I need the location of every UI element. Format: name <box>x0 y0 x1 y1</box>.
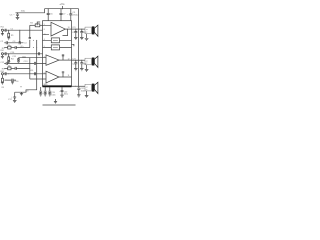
resistor R3 <box>4 46 15 49</box>
capacitor C9 <box>69 8 72 21</box>
wire supply input <box>16 9 45 13</box>
wire stby row <box>30 78 43 81</box>
svg-text:47k: 47k <box>30 70 33 72</box>
ground <box>74 69 78 71</box>
svg-text:10k: 10k <box>8 66 11 68</box>
svg-text:-o: -o <box>86 63 88 65</box>
input jack IN3 <box>1 73 3 75</box>
svg-text:9: 9 <box>44 24 45 26</box>
node N1 <box>21 86 22 87</box>
wire stub <box>37 22 40 25</box>
ground <box>85 91 89 98</box>
wire U1C inputs <box>43 74 47 79</box>
terminal block J3 <box>85 84 91 91</box>
capacitor C17 <box>13 92 16 100</box>
svg-text:4: 4 <box>44 39 45 41</box>
wire bracket 2 <box>28 57 31 79</box>
ground <box>11 82 14 84</box>
capacitor C15 <box>4 72 9 75</box>
wire U1C bootstrap <box>62 72 64 78</box>
wire branch C3 <box>18 30 21 43</box>
svg-text:-o: -o <box>86 32 88 34</box>
svg-text:C24: C24 <box>72 63 75 65</box>
resistor R2 <box>30 24 43 27</box>
speaker LS1 <box>92 25 98 36</box>
svg-text:11: 11 <box>68 75 70 77</box>
ground <box>17 61 20 63</box>
ground <box>85 34 89 41</box>
capacitor C21 <box>74 29 77 38</box>
svg-text:5: 5 <box>44 46 45 48</box>
wire right rail <box>78 9 80 87</box>
ground <box>80 69 84 71</box>
capacitor C7 <box>60 8 63 21</box>
capacitor C2 <box>4 41 19 44</box>
svg-text:C22: C22 <box>72 32 75 34</box>
capacitor C10 <box>4 52 9 55</box>
ground <box>74 38 78 40</box>
svg-text:R9: R9 <box>2 87 4 89</box>
svg-text:6: 6 <box>44 72 45 74</box>
ground <box>44 94 47 96</box>
svg-text:47u: 47u <box>20 46 23 48</box>
wire OUT3 <box>72 86 86 87</box>
wire ground bus IC bottom <box>43 85 72 87</box>
ground <box>16 17 20 19</box>
capacitor C27 <box>61 87 64 95</box>
ground <box>48 94 51 96</box>
capacitor C3 <box>19 41 23 44</box>
svg-text:100n: 100n <box>22 56 26 58</box>
resistor R7 <box>80 29 83 38</box>
capacitor C16 <box>5 79 17 82</box>
speaker LS3 <box>92 82 98 93</box>
input jack IN2 <box>1 53 3 55</box>
op-amp U1A <box>51 22 65 36</box>
svg-text:+Vs: +Vs <box>59 2 65 6</box>
speaker LS2 <box>92 56 98 67</box>
svg-text:7: 7 <box>44 56 45 58</box>
ground <box>54 99 57 104</box>
capacitor C18 <box>39 87 42 94</box>
capacitor C14 <box>15 67 30 70</box>
svg-text:C21: C21 <box>72 27 75 29</box>
wire IN1 <box>8 30 42 31</box>
node +Vs <box>62 6 63 9</box>
ground <box>60 95 63 97</box>
block mute <box>51 38 59 43</box>
ground <box>7 61 10 63</box>
svg-text:2200u: 2200u <box>73 15 80 17</box>
svg-text:10k: 10k <box>8 45 11 47</box>
pin tab stub <box>72 44 74 46</box>
ground <box>13 100 17 102</box>
wire U1A feedback <box>63 29 68 36</box>
wire mute pin <box>33 39 72 42</box>
capacitor C12 <box>4 62 34 65</box>
op-amp U1C <box>46 71 59 83</box>
wire U1B inputs <box>43 58 47 64</box>
capacitor C20 <box>48 87 51 94</box>
input jack IN1 <box>1 29 3 31</box>
wire IN3 <box>8 72 42 75</box>
block stand-by <box>51 45 59 50</box>
svg-text:100u: 100u <box>64 94 68 96</box>
wire feedback bracket <box>29 25 31 47</box>
svg-text:100n: 100n <box>51 94 55 96</box>
ground <box>39 94 42 96</box>
wire +Vs rail <box>45 8 79 10</box>
svg-text:8: 8 <box>44 29 45 31</box>
wire stand-by pin <box>33 46 72 49</box>
capacitor C6 <box>47 8 50 21</box>
resistor R6 <box>2 75 4 83</box>
terminal block J2 <box>85 58 91 65</box>
svg-text:13: 13 <box>68 27 70 29</box>
svg-text:C23: C23 <box>72 58 75 60</box>
wire IN2 <box>8 52 42 55</box>
ground <box>80 38 84 40</box>
ground <box>7 38 10 40</box>
capacitor C11 <box>17 58 20 61</box>
ground <box>85 65 89 72</box>
wire bottom rail <box>43 104 76 106</box>
ground <box>1 31 4 35</box>
wire OUT3 internal <box>59 76 72 78</box>
resistor R4 <box>8 54 10 61</box>
terminal block J1 <box>85 27 91 34</box>
resistor R5 <box>4 67 15 70</box>
capacitor C5 <box>16 12 19 17</box>
op-amp U1B <box>46 55 59 65</box>
svg-text:12: 12 <box>68 58 70 60</box>
capacitor C23 <box>74 60 77 69</box>
capacitor C19 <box>44 87 47 94</box>
wire OUT1 <box>72 29 86 30</box>
ground <box>1 55 4 59</box>
wire OUT1 internal <box>65 28 71 30</box>
wire OUT2 internal <box>59 59 72 61</box>
svg-text:GND: GND <box>43 84 48 86</box>
ground <box>77 95 81 97</box>
capacitor C25 <box>77 86 80 94</box>
ground <box>20 92 23 95</box>
svg-text:C4: C4 <box>24 42 26 44</box>
wire OUT2 <box>72 60 86 61</box>
wire U1B bootstrap <box>62 55 64 61</box>
capacitor C1 <box>4 29 9 32</box>
wire SVR rail <box>15 40 37 92</box>
capacitor C13 <box>34 62 42 65</box>
ground <box>1 83 4 85</box>
capacitor C4 <box>15 46 30 49</box>
op-amp IC U1 outline <box>43 21 72 87</box>
svg-text:10: 10 <box>44 34 46 36</box>
wire mute row <box>19 56 43 59</box>
resistor R1 <box>8 30 10 37</box>
wire U1A inputs <box>43 25 52 34</box>
resistor R8 <box>80 60 83 69</box>
svg-text:-o: -o <box>86 89 88 91</box>
